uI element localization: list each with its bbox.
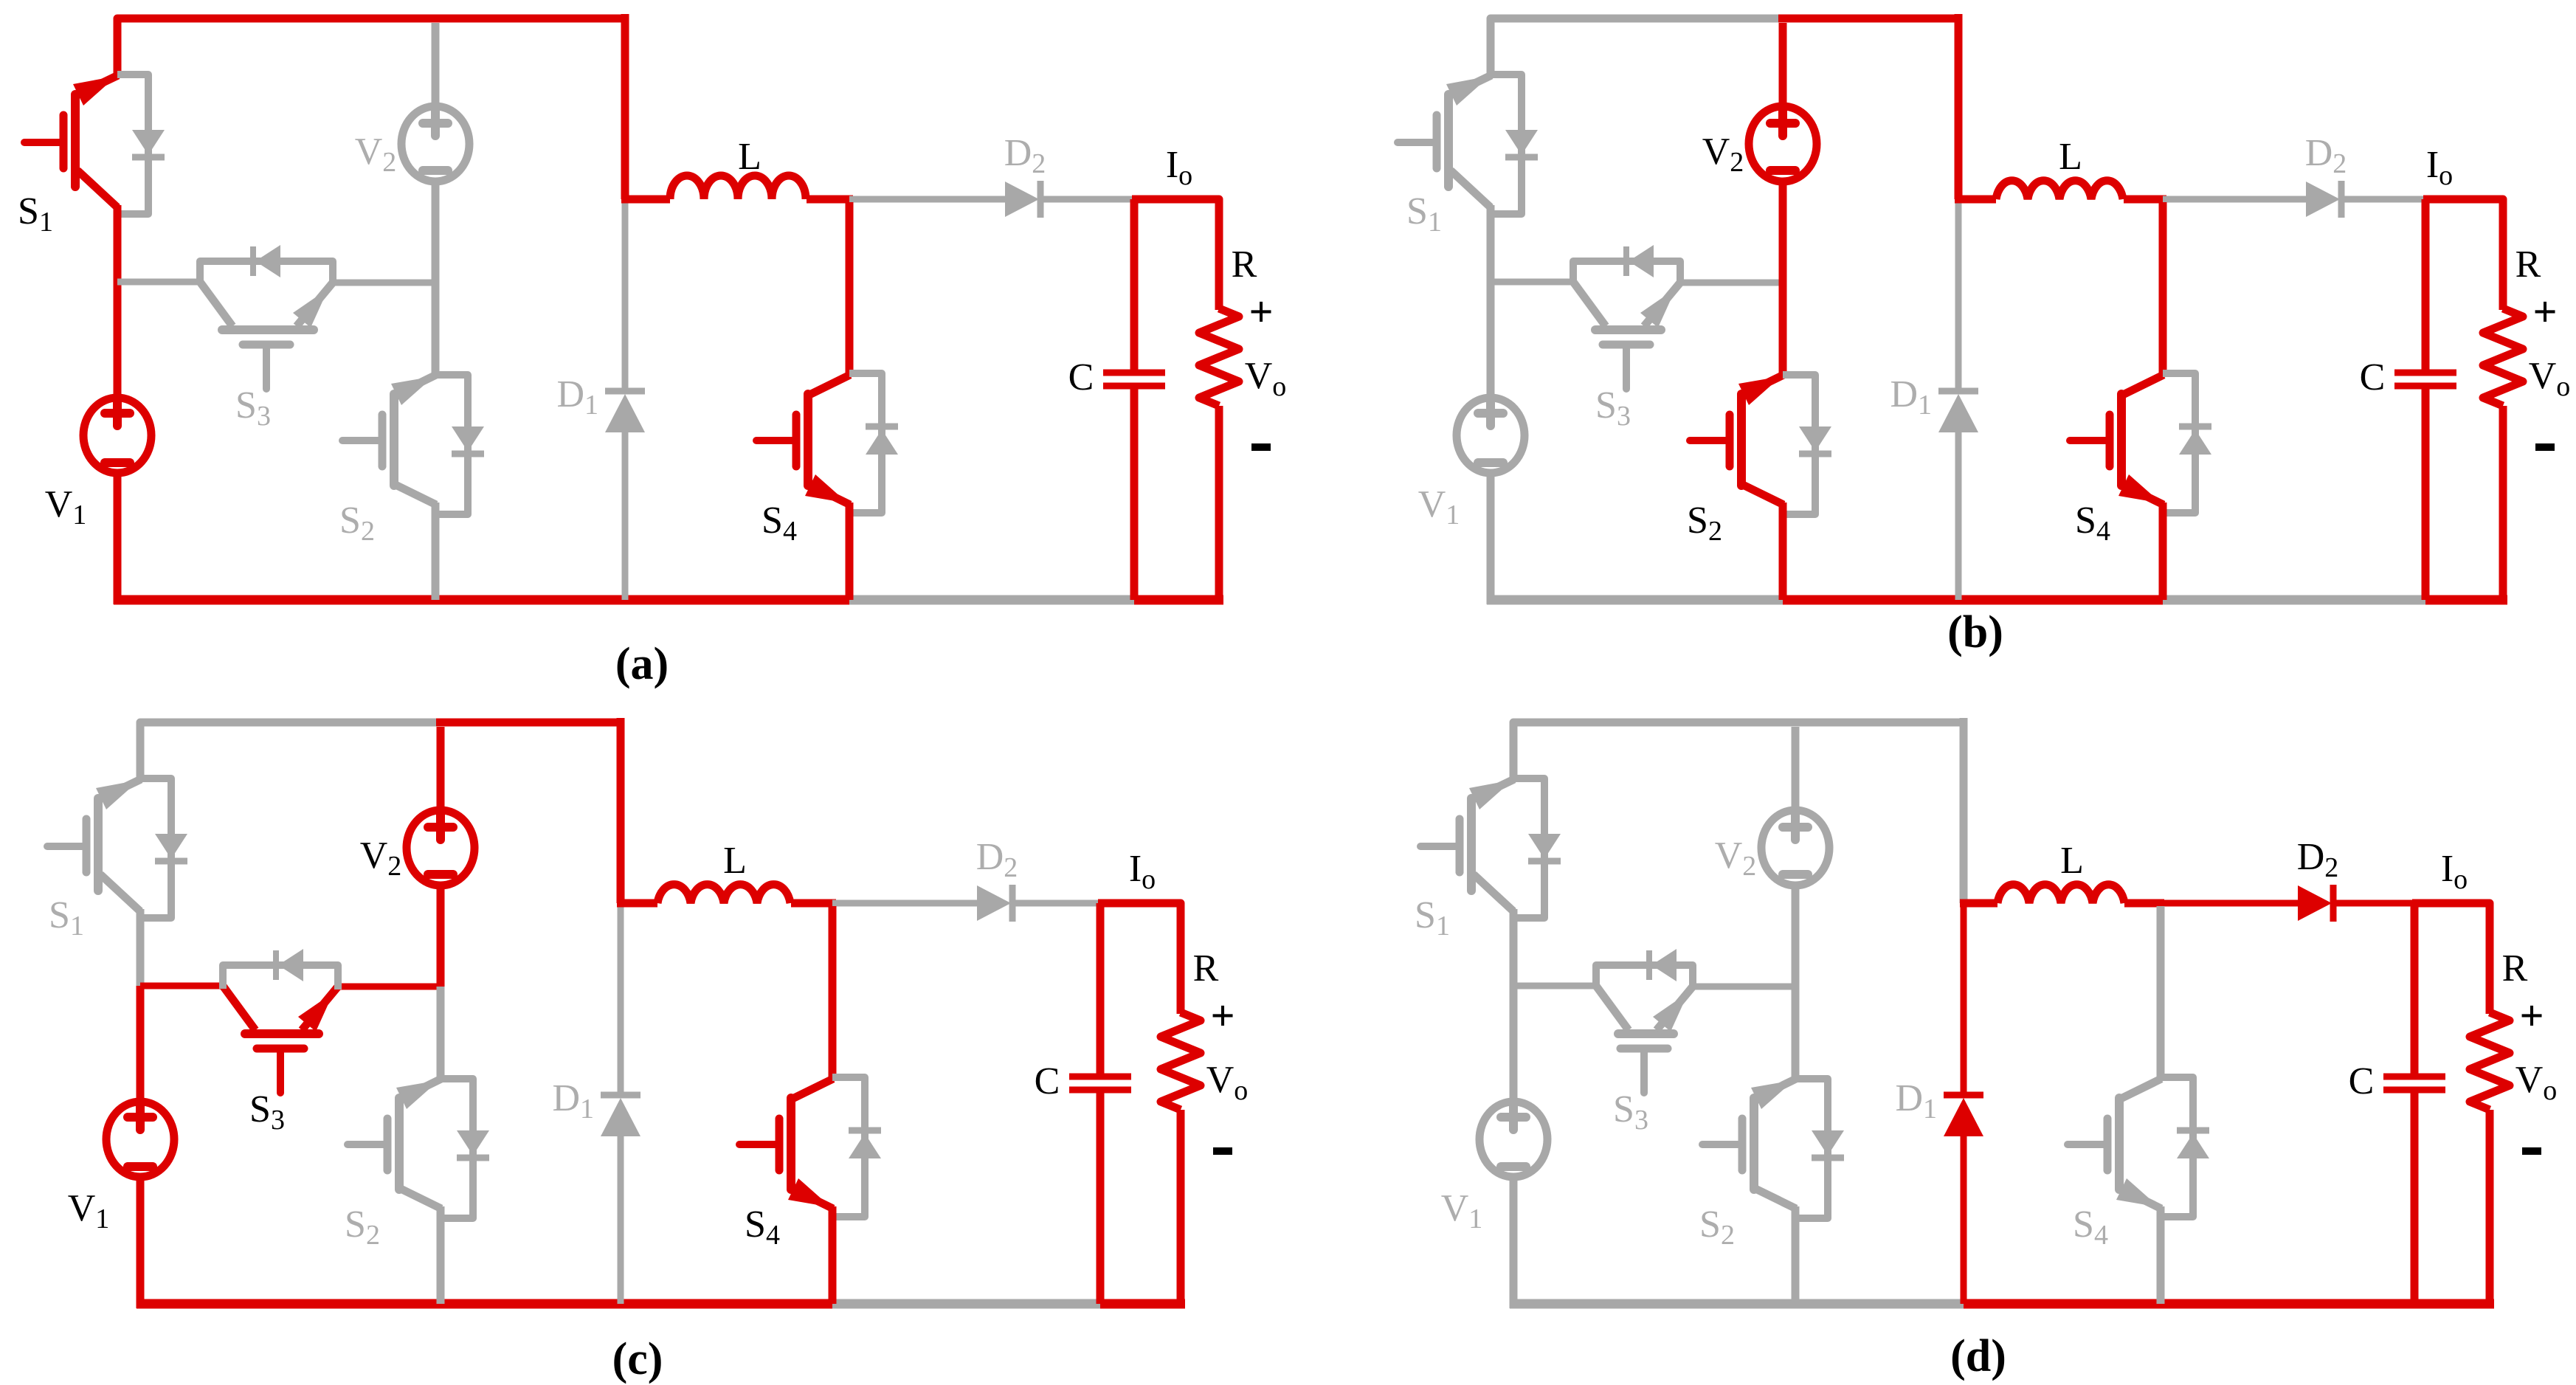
svg-text:+: + [2519,992,2544,1040]
wire: R to bottom rail (c) [1177,1110,1185,1308]
transistor S3 (IGBT, horizontal) (b) [1595,325,1661,334]
wire: L junction down to S4 (b) [2159,202,2167,375]
wire: bottom rail segment 4 (b) [2163,595,2425,605]
svg-text:V2: V2 [360,835,402,882]
wire: S3 junction to S2 collector (b) [1779,283,1787,375]
inductor L (b) [1996,181,2123,199]
svg-text:S1: S1 [1415,894,1450,942]
transistor S3 (IGBT, horizontal) (a) [222,325,314,334]
svg-text:L: L [738,136,762,178]
wire: R to bottom rail (d) [2486,1110,2494,1308]
wire: S4 emitter to bottom rail (a) [846,502,854,600]
wire: output node down to C (d) [2411,903,2419,1074]
wire: left rail to S3 (b) [1491,279,1573,286]
diode: S1 antiparallel diode (c) [140,778,171,918]
wire: L junction to inductor (a) [621,196,670,204]
voltage source V1 (a) [83,398,151,473]
wire: bottom rail segment 1 (a) [114,595,435,605]
capacitor C (d) [2383,1074,2445,1080]
voltage source V2 (a) [401,106,469,182]
wire: left rail S1 collector lead (a) [114,59,122,75]
wire: D1 branch lower (c) [618,1136,624,1304]
transistor S2 (IGBT) (b) [1737,394,1746,486]
diode: S2 antiparallel diode (d) [1795,1079,1828,1218]
wire: S3 to V2 branch (c) [338,984,441,990]
wire: V1 to bottom rail (d) [1510,1174,1518,1308]
svg-text:S2: S2 [345,1203,380,1251]
diode: S1 antiparallel diode (a) [117,75,148,214]
svg-text:S1: S1 [18,190,53,238]
svg-text:C: C [1068,356,1094,398]
svg-text:V1: V1 [68,1187,110,1234]
transistor S2 (IGBT) (a) [390,394,398,486]
wire: D1 branch lower (a) [622,432,629,600]
arrow: S4 current direction (b) [2119,474,2161,503]
svg-text:D2: D2 [2305,132,2347,179]
svg-text:Io: Io [1129,848,1156,895]
svg-text:Vo: Vo [2515,1059,2558,1106]
wire: L junction down to S4 (c) [829,906,837,1079]
transistor S4 (IGBT) (c) [787,1098,795,1189]
diode D2 (c) [977,885,1011,921]
wire: V1 to bottom rail (b) [1487,470,1495,604]
arrow: S1 current direction (a) [73,76,117,106]
wire: L junction down to S4 (d) [2157,906,2165,1079]
voltage source V1 (c) [106,1102,174,1177]
wire: D2 to output node (c) [1012,900,1100,907]
arrow: S4 current direction (a) [805,474,848,503]
svg-text:(b): (b) [1947,607,2003,657]
transistor S1 (IGBT) (d) [1467,798,1476,891]
arrow: S1 current direction (d) [1469,780,1513,809]
wire: D1 branch upper (a) [622,199,629,389]
transistor S2 (IGBT) (c) [395,1098,404,1189]
wire: bottom rail segment 3 (a) [625,595,849,605]
diode: S4 antiparallel diode (b) [2163,373,2195,513]
wire: bottom rail segment 2 (b) [1783,595,1958,605]
wire: S1 emitter to S3 junction (b) [1487,205,1495,282]
wire: left rail to S3 (c) [140,983,223,989]
wire: inductor to S4 junction (a) [807,196,853,204]
capacitor C (b) [2394,370,2456,376]
diode: S2 antiparallel diode (b) [1783,375,1815,514]
wire: top rail left segment (a) [117,18,435,63]
svg-text:D2: D2 [1004,132,1046,179]
label minus (a) [1251,443,1271,451]
svg-text:Vo: Vo [1245,355,1287,402]
wire: S2 emitter to bottom rail (a) [432,502,440,600]
svg-text:(a): (a) [615,639,669,689]
wire: top rail corner down to L junction (b) [1955,14,1963,199]
svg-text:L: L [723,840,747,882]
svg-text:V2: V2 [355,131,397,178]
diode: S4 antiparallel diode (a) [849,373,882,513]
svg-text:V1: V1 [45,483,87,531]
svg-text:D1: D1 [556,373,598,421]
wire: D1 branch upper (c) [618,903,624,1093]
wire: C to bottom rail (c) [1097,1093,1105,1304]
svg-text:S2: S2 [1699,1203,1735,1251]
wire: L junction to inductor (d) [1960,899,1997,908]
label minus (b) [2535,443,2555,451]
transistor S1 (IGBT) (b) [1444,94,1453,187]
svg-text:S1: S1 [49,894,84,942]
inductor L (c) [657,885,790,903]
wire: top rail left segment (d) [1513,722,1795,767]
arrow: S2 current direction (b) [1738,376,1781,405]
wire: L junction down to S4 (a) [846,202,854,375]
svg-text:S4: S4 [2075,500,2110,547]
svg-text:D2: D2 [2297,836,2339,883]
diode: S3 antiparallel diode (c) [223,965,338,989]
diode D1 (d) [1944,1092,1983,1099]
wire: S4 emitter to bottom rail (b) [2159,502,2167,600]
transistor S3 (IGBT, horizontal) (c) [245,1029,319,1038]
transistor S4 (IGBT) (b) [2117,394,2126,486]
wire: top rail to V2 (b) [1779,23,1787,108]
diode: S3 antiparallel diode (d) [1596,965,1693,989]
svg-text:D1: D1 [552,1077,594,1125]
svg-text:S1: S1 [1406,190,1442,238]
wire: V1 to bottom rail (c) [137,1174,145,1308]
arrow: S3 current direction (a) [293,289,328,328]
wire: S3 junction to V1 (a) [114,282,122,402]
diode: S4 antiparallel diode (c) [832,1077,865,1217]
wire: S3 to V2 branch (d) [1693,984,1795,990]
wire: L junction to inductor (b) [1955,196,1996,204]
wire: top rail to V2 (c) [437,727,445,812]
label minus (c) [1213,1147,1232,1155]
wire: bottom rail segment 3 (d) [1964,1299,2161,1309]
wire: output node to R corner (c) [1098,903,1181,1014]
resistor R (c) [1161,1012,1201,1110]
svg-text:V2: V2 [1702,131,1744,178]
svg-text:R: R [2515,244,2541,286]
wire: left rail S1 collector lead (c) [137,763,145,778]
wire: bottom rail segment 2 (d) [1795,1299,1964,1309]
wire: D1 branch lower (b) [1955,432,1962,600]
svg-text:S4: S4 [745,1203,780,1251]
wire: bottom rail output segment (a) [1134,595,1223,605]
svg-text:+: + [1249,288,1273,336]
resistor R (b) [2483,308,2523,406]
wire: S4 junction to D2 (c) [832,900,977,907]
diode: S2 antiparallel diode (c) [441,1079,473,1218]
wire: top rail right segment (c) [436,719,621,727]
voltage source V2 (d) [1761,810,1829,885]
wire: D2 to output node (b) [2341,196,2425,203]
arrow: S3 current direction (d) [1653,992,1688,1032]
wire: top rail left segment (b) [1491,18,1783,63]
resistor R (d) [2470,1012,2510,1110]
wire: S2 emitter to bottom rail (c) [437,1206,445,1304]
diode: S1 antiparallel diode (d) [1513,778,1544,918]
svg-text:L: L [2060,840,2084,882]
svg-text:D1: D1 [1895,1077,1937,1125]
inductor L (a) [670,176,806,199]
svg-text:+: + [1210,992,1235,1040]
wire: bottom rail output segment (b) [2425,595,2507,605]
wire: bottom rail output segment (c) [1100,1299,1185,1309]
wire: top rail to V2 (a) [432,23,440,108]
wire: S3 to V2 branch (a) [333,280,435,286]
voltage source V1 (d) [1479,1102,1547,1177]
svg-text:C: C [2360,356,2386,398]
wire: bottom rail segment 1 (c) [137,1299,441,1309]
wire: top rail right segment (d) [1791,719,1964,727]
wire: inductor to S4 junction (d) [2124,899,2164,908]
arrow: S2 current direction (d) [1751,1080,1794,1109]
wire: D2 to output node (d) [2333,900,2414,907]
transistor S4 (IGBT) (a) [804,394,812,486]
svg-text:Io: Io [2426,144,2453,191]
svg-text:R: R [1193,947,1219,989]
wire: output node to R corner (d) [2412,903,2490,1014]
wire: C to bottom rail (a) [1130,389,1139,600]
svg-text:R: R [1232,244,1257,286]
svg-text:S4: S4 [762,500,797,547]
wire: R to bottom rail (b) [2499,406,2507,604]
svg-text:Io: Io [2441,848,2468,895]
svg-text:S4: S4 [2073,1203,2108,1251]
svg-text:V2: V2 [1715,835,1757,882]
svg-text:V1: V1 [1441,1187,1483,1234]
wire: S2 emitter to bottom rail (d) [1792,1206,1800,1304]
wire: S4 emitter to bottom rail (c) [829,1206,837,1304]
svg-text:Vo: Vo [1206,1059,1249,1106]
inductor L (d) [1997,885,2124,903]
svg-text:(d): (d) [1950,1331,2006,1381]
wire: S1 emitter to S3 junction (c) [137,909,145,986]
wire: S3 junction to S2 collector (d) [1792,987,1800,1079]
wire: left rail to S3 (d) [1513,983,1596,989]
voltage source V1 (b) [1457,398,1524,473]
wire: bottom rail segment 3 (c) [621,1299,832,1309]
wire: V2 to S3 junction (d) [1792,882,1800,987]
arrow: S1 current direction (b) [1446,76,1490,106]
diode: S3 antiparallel diode (b) [1573,261,1680,286]
wire: top rail corner down to L junction (a) [621,14,629,199]
wire: D2 to output node (a) [1040,196,1134,203]
transistor S3 (IGBT, horizontal) (d) [1618,1029,1674,1038]
voltage source V2 (c) [407,810,474,885]
svg-text:Vo: Vo [2529,355,2571,402]
wire: output node to R corner (b) [2423,199,2503,310]
wire: S3 junction to V1 (c) [137,986,145,1106]
wire: inductor to S4 junction (c) [791,899,836,908]
arrow: S4 current direction (c) [788,1178,831,1207]
svg-text:C: C [1035,1060,1060,1102]
diode D1 (c) [601,1092,640,1099]
wire: bottom rail segment 4 (d) [2161,1299,2414,1309]
arrow: S2 current direction (a) [391,376,434,405]
wire: S1 emitter to S3 junction (a) [114,205,122,282]
wire: S3 junction to S2 collector (a) [432,283,440,375]
resistor R (a) [1199,308,1239,406]
wire: L junction to inductor (c) [617,899,657,908]
wire: D1 branch upper (d) [1961,903,1967,1093]
svg-text:S2: S2 [1687,500,1722,547]
wire: S4 junction to D2 (d) [2161,900,2298,907]
wire: D1 branch lower (d) [1961,1136,1967,1304]
wire: bottom rail segment 1 (b) [1487,595,1783,605]
diode D1 (a) [605,388,645,395]
wire: output node down to C (c) [1097,903,1105,1074]
svg-text:(c): (c) [612,1334,663,1384]
wire: bottom rail segment 3 (b) [1958,595,2163,605]
wire: V2 to S3 junction (a) [432,178,440,283]
diode: S2 antiparallel diode (a) [435,375,468,514]
wire: S3 junction to V1 (b) [1487,282,1495,402]
wire: C to bottom rail (d) [2411,1093,2419,1304]
transistor S2 (IGBT) (d) [1750,1098,1758,1189]
svg-text:Io: Io [1166,144,1192,191]
label minus (d) [2522,1147,2541,1155]
wire: left rail S1 collector lead (b) [1487,59,1495,75]
svg-text:D1: D1 [1890,373,1932,421]
wire: S3 junction to V1 (d) [1510,986,1518,1106]
wire: left rail S1 collector lead (d) [1510,763,1518,778]
arrow: S3 current direction (b) [1640,289,1676,328]
wire: D1 branch upper (b) [1955,199,1962,389]
arrow: S1 current direction (c) [96,780,139,809]
wire: V2 to S3 junction (c) [437,882,445,987]
wire: top rail corner down to L junction (d) [1960,718,1968,903]
transistor S4 (IGBT) (d) [2115,1098,2124,1189]
wire: S3 junction to S2 collector (c) [437,987,445,1079]
diode D2 (a) [1005,182,1039,217]
wire: bottom rail segment 4 (c) [832,1299,1100,1309]
wire: output node down to C (b) [2422,199,2430,370]
svg-text:L: L [2059,136,2082,178]
wire: S1 emitter to S3 junction (d) [1510,909,1518,986]
wire: output node to R corner (a) [1132,199,1219,310]
wire: bottom rail segment 2 (c) [441,1299,621,1309]
transistor S1 (IGBT) (c) [94,798,103,891]
svg-text:D2: D2 [976,836,1018,883]
diode D1 (b) [1938,388,1978,395]
diode D2 (d) [2298,885,2332,921]
wire: bottom rail segment 1 (d) [1510,1299,1795,1309]
wire: C to bottom rail (b) [2422,389,2430,600]
svg-text:+: + [2532,288,2557,336]
wire: V2 to S3 junction (b) [1779,178,1787,283]
capacitor C (c) [1069,1074,1131,1080]
capacitor C (a) [1103,370,1165,376]
diode D2 (b) [2306,182,2340,217]
wire: S4 junction to D2 (a) [849,196,1005,203]
wire: bottom rail segment 2 (a) [435,595,625,605]
wire: S2 emitter to bottom rail (b) [1779,502,1787,600]
wire: R to bottom rail (a) [1215,406,1223,604]
diode: S4 antiparallel diode (d) [2161,1077,2193,1217]
wire: S3 to V2 branch (b) [1680,280,1783,286]
arrow: S2 current direction (c) [396,1080,439,1109]
wire: top rail corner down to L junction (c) [617,718,625,903]
wire: V1 to bottom rail (a) [114,470,122,604]
svg-text:V1: V1 [1418,483,1460,531]
wire: top rail left segment (c) [140,722,441,767]
wire: bottom rail output segment (d) [2414,1299,2494,1309]
svg-text:R: R [2502,947,2528,989]
wire: output node down to C (a) [1130,199,1139,370]
wire: top rail right segment (b) [1778,15,1958,23]
wire: top rail to V2 (d) [1792,727,1800,812]
wire: S4 emitter to bottom rail (d) [2157,1206,2165,1304]
svg-text:S2: S2 [339,500,375,547]
svg-text:C: C [2349,1060,2375,1102]
diode: S3 antiparallel diode (a) [200,261,333,286]
arrow: S4 current direction (d) [2116,1178,2159,1207]
wire: bottom rail segment 4 (a) [849,595,1134,605]
arrow: S3 current direction (c) [298,992,334,1032]
wire: top rail right segment (a) [431,15,625,23]
wire: left rail to S3 (a) [117,279,200,286]
diode: S1 antiparallel diode (b) [1491,75,1522,214]
voltage source V2 (b) [1749,106,1817,182]
transistor S1 (IGBT) (a) [71,94,80,187]
wire: inductor to S4 junction (b) [2124,196,2166,204]
wire: S4 junction to D2 (b) [2163,196,2306,203]
